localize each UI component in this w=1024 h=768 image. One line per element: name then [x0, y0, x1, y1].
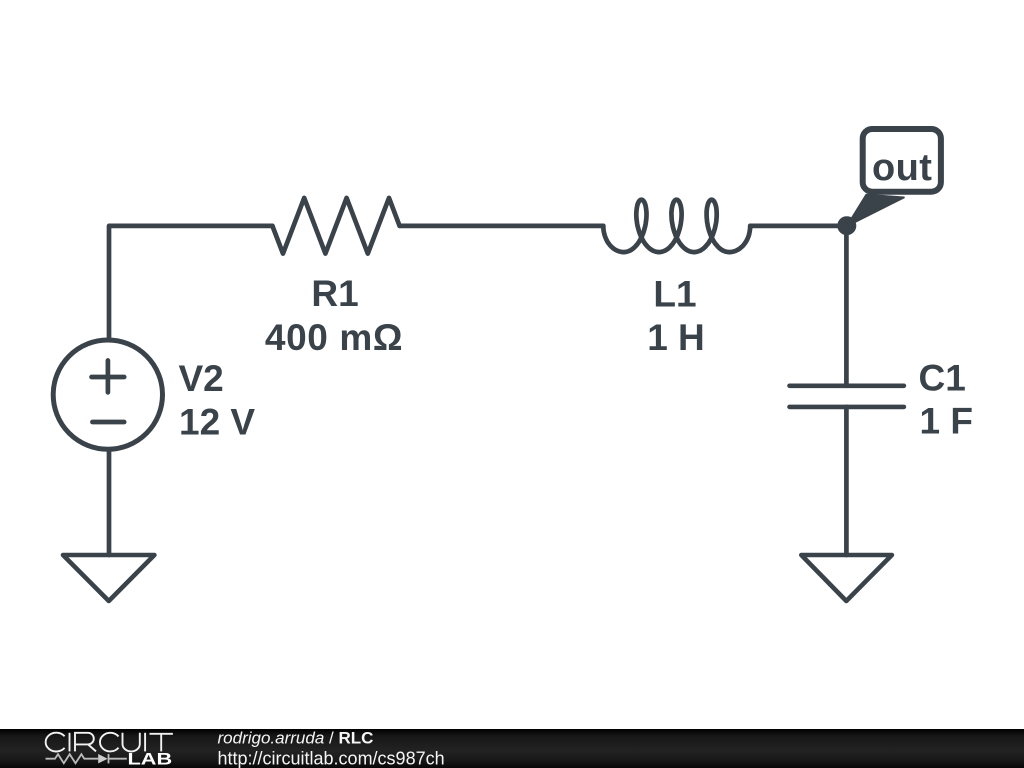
svg-text:1 F: 1 F	[920, 401, 973, 442]
V2 minus sign	[92, 420, 124, 425]
svg-text:C1: C1	[919, 358, 966, 399]
footer bar	[0, 729, 1024, 768]
svg-text:400 mΩ: 400 mΩ	[265, 317, 403, 358]
svg-text:12 V: 12 V	[179, 402, 255, 443]
wire: node out down to C1 top plate	[844, 226, 849, 386]
ground symbol (left)	[63, 555, 154, 601]
wire: L1 right terminal to node out	[750, 224, 846, 229]
callout tail from box to node out	[847, 195, 904, 226]
V2 plus sign	[92, 361, 125, 393]
svg-text:L1: L1	[653, 274, 696, 315]
svg-text:LAB: LAB	[128, 750, 173, 768]
wire: V2 top terminal up and right to R1 left terminal	[109, 226, 272, 339]
svg-text:out: out	[872, 147, 932, 189]
wire: R1 right terminal to L1 left terminal	[400, 224, 604, 229]
capacitor C1 plates	[790, 386, 904, 407]
inductor L1	[603, 200, 750, 252]
voltage source V2 circle	[53, 340, 162, 449]
svg-text:rodrigo.arruda / RLC: rodrigo.arruda / RLC	[218, 729, 374, 748]
node name callout box (out)	[863, 129, 941, 192]
svg-text:1 H: 1 H	[647, 317, 705, 358]
junction dot at node out	[837, 216, 856, 235]
logo diode symbol	[98, 754, 108, 763]
CircuitLab logo wordmark CIRCUIT	[46, 733, 173, 752]
wire: C1 bottom plate to right ground	[844, 407, 849, 555]
svg-text:R1: R1	[311, 273, 358, 314]
ground symbol (right)	[801, 555, 892, 601]
wire: V2 bottom terminal to left ground	[107, 450, 112, 556]
logo schematic squiggle: wire and resistor zigzag	[46, 754, 127, 763]
svg-text:http://circuitlab.com/cs987ch: http://circuitlab.com/cs987ch	[218, 748, 445, 768]
resistor R1	[272, 198, 399, 254]
svg-text:V2: V2	[179, 358, 224, 399]
